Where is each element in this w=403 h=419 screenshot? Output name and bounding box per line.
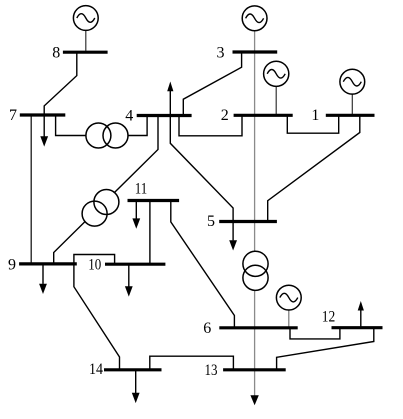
svg-text:9: 9 [8,256,16,273]
svg-text:10: 10 [88,257,101,274]
bus 8 [63,51,108,54]
load arrow bus 9 [39,264,47,294]
bus 3 [233,50,278,53]
svg-text:7: 7 [9,107,17,124]
load arrow bus 10 [125,264,133,296]
generator G3 [242,6,267,31]
bus 12 [332,326,383,329]
generator G1 [340,69,365,115]
load arrow bus 14 [132,370,140,403]
transformer T4-9 [82,190,119,227]
wire 7-8 [44,52,77,115]
wire 1-5 [268,115,360,221]
svg-text:13: 13 [205,362,218,379]
wire 3-4 [183,52,241,116]
svg-text:3: 3 [217,45,225,62]
transformer T7-4 [86,123,128,148]
wire 12-13 [277,328,374,370]
generator G2 [264,61,289,115]
wire 1-2 [287,115,338,133]
wire 10-11 [149,201,151,265]
transformer T5-6 [243,251,268,290]
generator G6 [276,285,301,328]
svg-text:2: 2 [221,107,229,124]
load arrow bus 7 [40,115,48,147]
load arrow bus 13 [250,395,258,405]
svg-text:12: 12 [322,309,336,326]
up arrow bus 4 [167,82,173,116]
wire 7 to transformer to 4 [56,115,148,136]
wire 4-5 [170,116,233,222]
load arrow bus 11 [132,201,140,229]
wire 11-6 [171,201,235,328]
wire 13-14 [150,356,234,370]
wire bus3 to bus13 trunk (lines 2-3, 2-5, 5-6, 6-13) [254,31,256,398]
bus 6 [219,326,297,329]
svg-text:8: 8 [52,45,60,62]
wire 6-12 [290,328,340,339]
bus 10 [105,263,165,266]
generator G8 [73,6,98,51]
wire 2-4 [179,115,242,136]
bus 14 [104,368,162,371]
wire 9-14 [74,264,120,370]
load arrow bus 5 [229,222,237,251]
bus 9 [19,262,77,265]
bus 7 [20,113,66,116]
wire 4 to transformer to 9 [54,116,158,264]
svg-text:5: 5 [207,213,215,230]
svg-text:4: 4 [125,107,133,124]
wire 9-10 [74,255,115,265]
bus 13 [223,368,286,371]
up arrow bus 12 [358,301,364,328]
bus 5 [219,220,277,223]
svg-text:14: 14 [89,361,103,378]
bus 1 [326,114,375,117]
svg-text:11: 11 [135,181,148,198]
svg-text:6: 6 [203,320,211,337]
bus 2 [234,114,293,117]
bus 4 [137,114,192,117]
wire 7-9 [30,115,32,264]
bus 11 [128,199,180,202]
svg-text:1: 1 [311,107,319,124]
